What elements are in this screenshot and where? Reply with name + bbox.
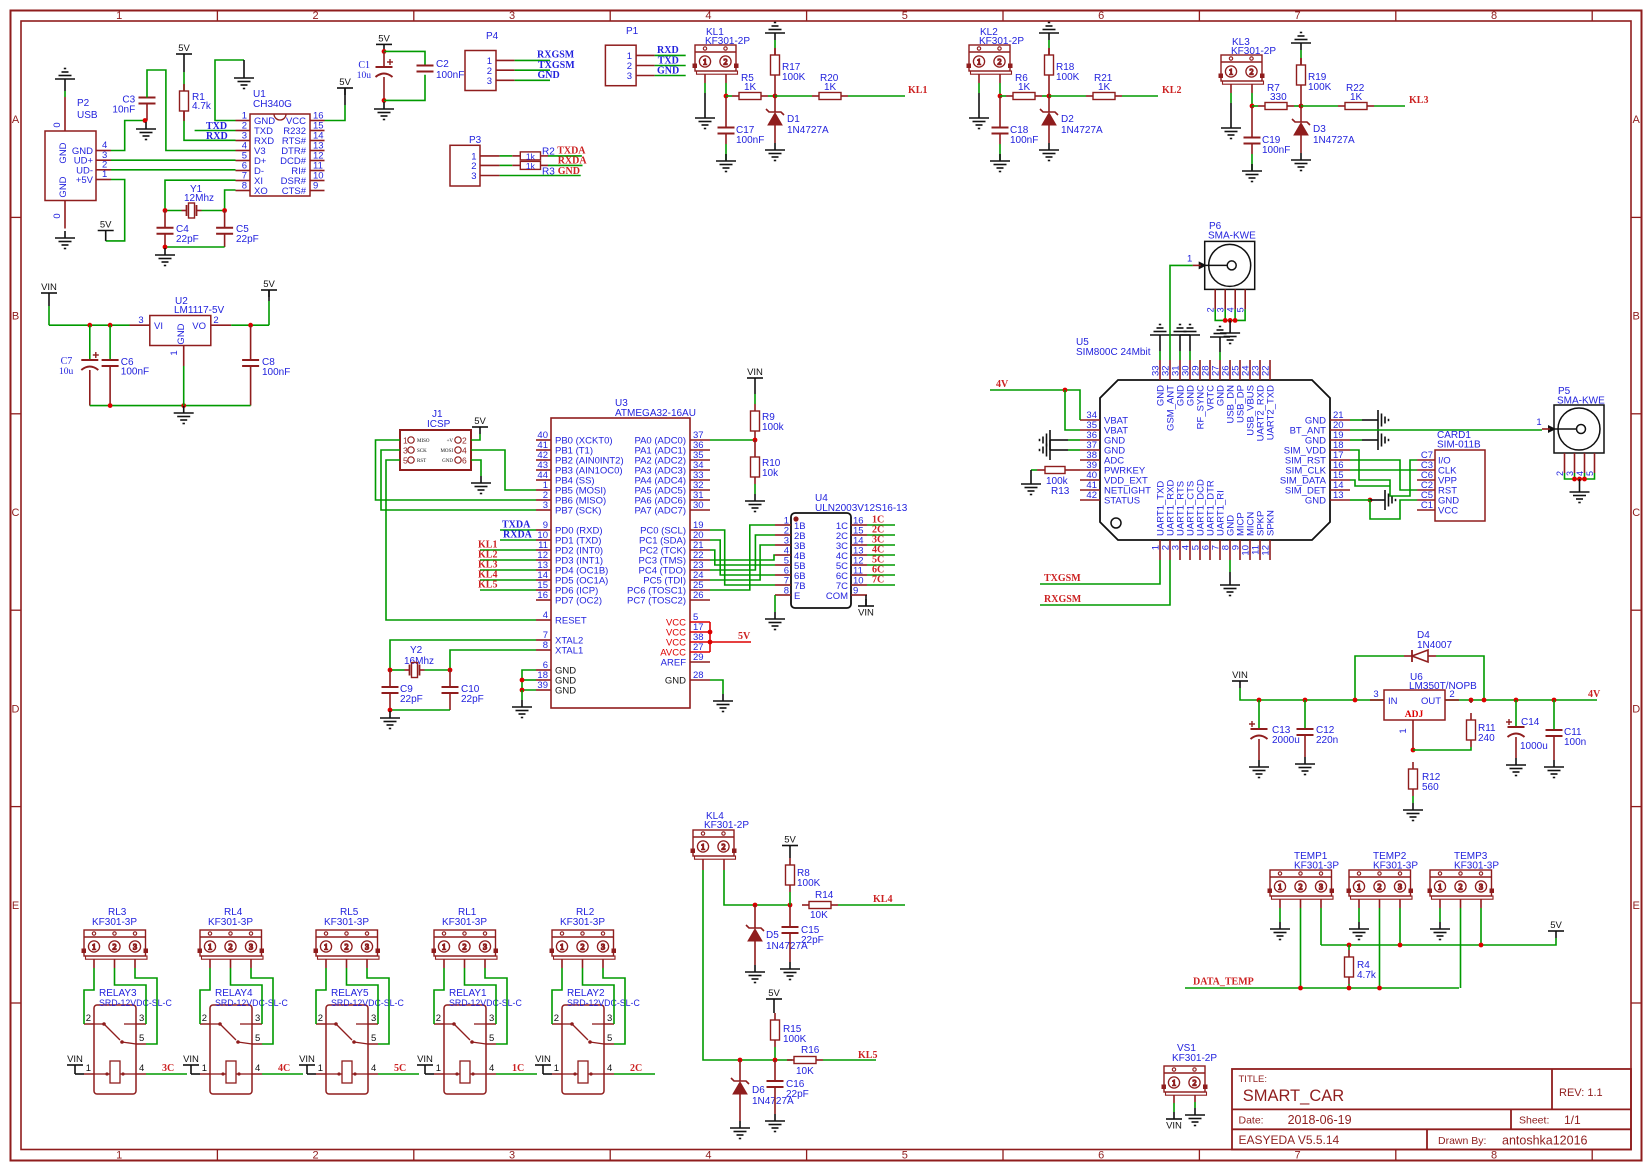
resistor R12 body: [1409, 762, 1418, 796]
wire: [135, 968, 157, 1044]
junction TEMP2 pin2: [1377, 986, 1382, 991]
wire RL2 pin3: [602, 959, 604, 968]
svg-text:100nF: 100nF: [262, 367, 290, 378]
wire: [1350, 460, 1417, 490]
svg-text:SRD-12VDC-SL-C: SRD-12VDC-SL-C: [331, 998, 404, 1008]
ground above R18: [1039, 23, 1059, 41]
wire: [1040, 560, 1160, 584]
svg-text:OUT: OUT: [1421, 696, 1441, 707]
svg-text:5V: 5V: [474, 416, 486, 427]
svg-text:C7: C7: [61, 356, 73, 367]
wire: [1048, 82, 1050, 96]
svg-text:PC7 (TOSC2): PC7 (TOSC2): [627, 596, 686, 607]
svg-text:2: 2: [1206, 307, 1216, 312]
wire U5 pin13 gnd: [1350, 499, 1362, 501]
svg-text:KF301-3P: KF301-3P: [1373, 861, 1418, 872]
wire: [710, 680, 723, 694]
svg-text:9: 9: [313, 181, 318, 192]
svg-text:3: 3: [1216, 307, 1226, 312]
connector RL3 KF301-3P: [82, 930, 148, 959]
junction R4 top: [1347, 943, 1352, 948]
svg-text:100nF: 100nF: [121, 367, 149, 378]
svg-text:2: 2: [1378, 882, 1382, 891]
wire: [1224, 309, 1226, 320]
connector KL2 KF301-2P: [967, 45, 1012, 74]
resistor R18 100K: [1045, 48, 1054, 82]
wire: [1048, 40, 1050, 48]
ground below C13: [1249, 760, 1269, 778]
wire: [774, 1087, 776, 1114]
svg-text:1: 1: [1278, 882, 1282, 891]
zener diode D6 1N4727A: [731, 1078, 749, 1094]
power flag 5V at temp bus: [1548, 931, 1564, 938]
svg-text:1000u: 1000u: [1520, 741, 1548, 752]
capacitor C13 body: [1249, 721, 1268, 739]
connector P5 SMA-KWE: [1548, 405, 1604, 453]
svg-text:2: 2: [554, 1013, 559, 1024]
svg-text:D3: D3: [1313, 124, 1326, 135]
capacitor C14 1000u: [1515, 700, 1517, 727]
wire TEMP2 pin3: [1399, 899, 1401, 908]
capacitor C3 body: [139, 98, 156, 104]
svg-text:330: 330: [1270, 92, 1287, 103]
svg-text:4: 4: [139, 1063, 144, 1074]
power flag 5V at U1 VCC: [337, 88, 353, 95]
ground TEMP1 pin1: [1270, 922, 1290, 940]
svg-text:1: 1: [560, 942, 564, 951]
svg-text:2: 2: [318, 1013, 323, 1024]
resistor R14 body: [802, 902, 838, 909]
wire: [471, 460, 481, 476]
junction KL2 pin2: [998, 94, 1003, 99]
wire 4C: [262, 1073, 303, 1075]
wire: [583, 968, 615, 1024]
ground U5 pin30: [1180, 325, 1200, 343]
svg-text:C: C: [1632, 507, 1640, 519]
svg-text:EASYEDA V5.5.14: EASYEDA V5.5.14: [1239, 1133, 1340, 1147]
svg-text:1: 1: [169, 350, 180, 355]
svg-text:5: 5: [607, 1033, 612, 1044]
svg-text:GND: GND: [58, 142, 69, 163]
junction Y1 left: [163, 208, 168, 213]
svg-text:1: 1: [208, 942, 212, 951]
svg-text:5V: 5V: [1550, 920, 1562, 931]
svg-text:VO: VO: [192, 321, 206, 332]
wire: [1215, 309, 1245, 320]
svg-text:SIM800C 24Mbit: SIM800C 24Mbit: [1076, 347, 1151, 358]
capacitor C17 100nF: [718, 128, 735, 134]
connector RL1 KF301-3P: [432, 930, 498, 959]
wire RXDA: [500, 539, 536, 541]
svg-text:1K: 1K: [1018, 82, 1031, 93]
svg-text:VIN: VIN: [747, 367, 763, 378]
junction R9/R10: [753, 438, 758, 443]
svg-text:5C: 5C: [394, 1063, 406, 1074]
svg-text:100K: 100K: [797, 878, 821, 889]
svg-text:28: 28: [693, 670, 704, 681]
power flag 5V at U2 output: [261, 290, 277, 297]
junction Y2 left: [388, 668, 393, 673]
svg-text:1: 1: [436, 1063, 441, 1074]
svg-text:4: 4: [1575, 471, 1585, 476]
wire: [725, 134, 727, 145]
ground below C18: [990, 154, 1010, 172]
junction C1 top: [382, 49, 387, 54]
IC U2 LM1117-5V: [130, 316, 232, 367]
svg-text:A: A: [1633, 114, 1641, 126]
resistor R1 4.7k: [180, 84, 189, 118]
svg-text:SRD-12VDC-SL-C: SRD-12VDC-SL-C: [449, 998, 522, 1008]
svg-text:4: 4: [489, 1063, 494, 1074]
connector P6 SMA-KWE: [1199, 241, 1255, 289]
capacitor C9: [382, 687, 399, 693]
wire: [774, 96, 776, 112]
relay RELAY4 SRD-12VDC-SL-C: [200, 1005, 262, 1094]
ground U3 pin28: [713, 694, 733, 712]
resistor R4 body: [1345, 950, 1354, 984]
svg-text:R13: R13: [1051, 486, 1070, 497]
svg-text:3: 3: [509, 1150, 515, 1162]
wire RL2 pin2: [582, 959, 584, 968]
svg-text:2: 2: [1555, 471, 1565, 476]
wire: [655, 65, 686, 67]
svg-text:220n: 220n: [1316, 735, 1338, 746]
wire: [465, 968, 497, 1024]
svg-text:SCK: SCK: [417, 449, 427, 454]
svg-text:VIN: VIN: [535, 1054, 551, 1065]
svg-text:SRD-12VDC-SL-C: SRD-12VDC-SL-C: [215, 998, 288, 1008]
svg-text:5V: 5V: [378, 33, 390, 44]
IC U6 LM350T/NOPB: [1370, 690, 1459, 750]
power flag VIN at RELAY4: [183, 1065, 199, 1072]
wire: [231, 324, 269, 326]
svg-text:C2: C2: [436, 59, 449, 70]
svg-text:1: 1: [92, 942, 96, 951]
svg-text:100K: 100K: [783, 1034, 807, 1045]
ground below C9: [380, 711, 400, 729]
svg-text:1K: 1K: [744, 82, 757, 93]
junction P6 shield: [1223, 318, 1228, 323]
svg-text:4: 4: [371, 1063, 376, 1074]
wire: [1252, 105, 1258, 107]
resistor R21 1K: [1086, 93, 1122, 100]
svg-text:1: 1: [86, 1063, 91, 1074]
svg-text:8: 8: [784, 586, 789, 597]
svg-text:4: 4: [1226, 307, 1236, 312]
wire: [231, 968, 263, 1024]
svg-text:KF301-3P: KF301-3P: [560, 917, 605, 928]
wire 1C: [496, 1073, 537, 1075]
svg-text:SMART_CAR: SMART_CAR: [1243, 1087, 1345, 1105]
svg-text:3: 3: [1398, 882, 1402, 891]
svg-text:1: 1: [116, 10, 122, 22]
ground for U1 GND pin: [234, 71, 254, 89]
svg-text:2: 2: [345, 942, 349, 951]
connector KL3 KF301-2P: [1219, 55, 1264, 84]
svg-text:5: 5: [1236, 307, 1246, 312]
junction 4V rail: [1482, 698, 1487, 703]
svg-text:3: 3: [489, 1013, 494, 1024]
resistor R13 100k: [1037, 467, 1080, 474]
junction R15/C16: [773, 1058, 778, 1063]
junction P6 shield: [1228, 318, 1233, 323]
svg-text:6: 6: [1098, 10, 1104, 22]
capacitor C1: [376, 59, 394, 77]
wire: [552, 968, 562, 1024]
svg-text:3: 3: [1319, 882, 1323, 891]
svg-text:2018-06-19: 2018-06-19: [1288, 1113, 1352, 1127]
svg-text:42: 42: [1086, 490, 1097, 501]
svg-text:2: 2: [313, 10, 319, 22]
svg-text:E: E: [1633, 900, 1640, 912]
ground P5 shield: [1570, 485, 1590, 503]
svg-text:1: 1: [977, 57, 981, 66]
svg-text:100nF: 100nF: [1262, 145, 1290, 156]
wire 4C: [867, 554, 895, 556]
wire: [384, 51, 425, 65]
ground U5 pin13: [1378, 490, 1396, 510]
svg-text:4: 4: [705, 1150, 711, 1162]
junction Y2 right: [448, 668, 453, 673]
junction KL1 pin2: [724, 94, 729, 99]
svg-text:2: 2: [1299, 882, 1303, 891]
wire RL3 pin2: [114, 959, 116, 968]
wire: [1229, 560, 1231, 572]
svg-text:5V: 5V: [100, 220, 112, 231]
wire 5C: [867, 564, 895, 566]
svg-text:3: 3: [1565, 471, 1575, 476]
svg-text:4: 4: [255, 1063, 260, 1074]
wire: [165, 180, 236, 210]
svg-text:GND: GND: [665, 676, 686, 687]
svg-text:D1: D1: [787, 114, 800, 125]
svg-text:1: 1: [1536, 417, 1541, 428]
wire: [1579, 479, 1581, 485]
svg-text:antoshka12016: antoshka12016: [1502, 1134, 1588, 1148]
svg-text:KF301-3P: KF301-3P: [1294, 861, 1339, 872]
wire: [1300, 135, 1302, 153]
ground at R13: [1021, 477, 1041, 495]
ground below D5: [745, 965, 765, 983]
svg-text:E: E: [794, 591, 800, 602]
svg-text:1: 1: [1172, 1078, 1176, 1087]
svg-text:5: 5: [902, 1150, 908, 1162]
svg-text:RST: RST: [417, 459, 426, 464]
svg-text:7C: 7C: [872, 575, 884, 586]
wire TEMP1 pin1: [1279, 899, 1281, 908]
junction 4V rail: [1469, 698, 1474, 703]
wire: [190, 1072, 192, 1074]
svg-text:3: 3: [139, 1013, 144, 1024]
wire RL5 pin1: [325, 959, 327, 968]
svg-text:1: 1: [701, 842, 705, 851]
svg-text:2: 2: [86, 1013, 91, 1024]
svg-text:D: D: [12, 703, 20, 715]
crystal Y1 12Mhz: [182, 203, 202, 218]
resistor R15 100K: [771, 1013, 780, 1047]
wire: [115, 968, 147, 1024]
svg-text:1: 1: [703, 57, 707, 66]
wire net KL2: [1122, 95, 1158, 97]
svg-text:2: 2: [581, 942, 585, 951]
junction KL3 mid: [1299, 104, 1304, 109]
ground above R19: [1291, 33, 1311, 51]
wire 6C: [867, 574, 895, 576]
junction 4V rail: [1552, 698, 1557, 703]
wire: [737, 904, 792, 906]
svg-text:C14: C14: [1521, 717, 1540, 728]
wire: [1294, 105, 1301, 107]
svg-text:GND: GND: [58, 176, 69, 197]
power flag VIN at VS1: [1166, 1112, 1182, 1119]
svg-text:22: 22: [1261, 365, 1272, 376]
wire: [1219, 352, 1221, 360]
power flag 5V above C1: [376, 44, 392, 51]
svg-text:3: 3: [607, 1013, 612, 1024]
diode D4 1N4007: [1404, 650, 1436, 662]
junction C7 top: [87, 323, 92, 328]
svg-text:3: 3: [403, 446, 408, 456]
svg-text:XTAL1: XTAL1: [555, 646, 583, 657]
resistor R11 body: [1467, 713, 1476, 747]
svg-text:REV: 1.1: REV: 1.1: [1559, 1087, 1603, 1099]
ground KL2 pin1: [969, 111, 989, 129]
svg-text:3: 3: [365, 942, 369, 951]
wire: [710, 545, 775, 580]
wire: [381, 450, 536, 510]
ground KL3 pin1: [1221, 121, 1241, 139]
wire: [1412, 796, 1414, 803]
svg-text:1: 1: [324, 942, 328, 951]
svg-text:ADJ: ADJ: [1405, 710, 1424, 720]
svg-text:KF301-2P: KF301-2P: [1231, 46, 1276, 57]
power flag VIN at RELAY3: [67, 1065, 83, 1072]
svg-text:26: 26: [693, 590, 704, 601]
junction R8/C15: [788, 903, 793, 908]
svg-text:KL5: KL5: [858, 1050, 877, 1061]
wire: [389, 670, 391, 687]
svg-text:1: 1: [116, 1150, 122, 1162]
wire: [1300, 106, 1302, 122]
wire: [1370, 500, 1417, 519]
wire: [1350, 469, 1417, 471]
wire 5C: [378, 1073, 419, 1075]
wire KL4: [480, 579, 536, 581]
wire 7C: [867, 584, 895, 586]
svg-text:PD7 (OC2): PD7 (OC2): [555, 596, 602, 607]
wire 3C: [867, 544, 895, 546]
wire: [754, 385, 756, 394]
junction P5 shield: [1577, 477, 1582, 482]
svg-text:2: 2: [724, 57, 728, 66]
svg-text:3: 3: [601, 942, 605, 951]
svg-text:PB7 (SCK): PB7 (SCK): [555, 506, 601, 517]
svg-text:KL5: KL5: [478, 580, 497, 591]
wire: [195, 130, 236, 132]
svg-text:4.7k: 4.7k: [192, 101, 212, 112]
wire C3 bottom: [146, 104, 148, 121]
wire: [774, 125, 776, 143]
connector J1 ICSP: [400, 430, 471, 470]
junction U2 GND: [181, 403, 186, 408]
wire: [542, 1072, 544, 1074]
junction C9 bottom: [388, 708, 393, 713]
junction D5: [753, 903, 758, 908]
svg-text:VIN: VIN: [41, 282, 57, 293]
svg-text:P2: P2: [77, 98, 90, 109]
wire: [1179, 351, 1181, 360]
wire: [1355, 656, 1404, 700]
ground at J1: [471, 476, 491, 494]
wire: [1350, 439, 1362, 441]
svg-text:1N4727A: 1N4727A: [1313, 135, 1355, 146]
wire KL4 pin1 to KL5 row: [702, 859, 704, 870]
ground below P2: [55, 231, 75, 249]
svg-text:MISO: MISO: [417, 439, 430, 444]
svg-text:4: 4: [543, 610, 548, 621]
svg-text:100K: 100K: [1056, 72, 1080, 83]
svg-text:1: 1: [554, 1063, 559, 1074]
svg-text:R14: R14: [815, 890, 834, 901]
junction C1 bottom: [382, 98, 387, 103]
resistor R7 330: [1258, 103, 1294, 110]
svg-text:2C: 2C: [630, 1063, 642, 1074]
ground below C15: [780, 962, 800, 980]
wire: [164, 234, 166, 247]
power flag 5V above R1: [176, 54, 192, 61]
power flag VIN at U2: [41, 293, 57, 300]
svg-text:SRD-12VDC-SL-C: SRD-12VDC-SL-C: [99, 998, 172, 1008]
wire: [376, 440, 537, 500]
junction TEMP2 pin3: [1398, 943, 1403, 948]
wire: [1185, 987, 1459, 989]
svg-text:VIN: VIN: [417, 1054, 433, 1065]
wire: [89, 370, 91, 406]
ground P6 shield: [1220, 326, 1240, 344]
wire: [774, 1060, 776, 1081]
wire 3C: [146, 1073, 187, 1075]
wire KL4 net: [838, 904, 905, 906]
junction KL3 pin2: [1250, 104, 1255, 109]
wire: [500, 175, 581, 177]
resistor R17 100K: [771, 48, 780, 82]
wire: [147, 70, 236, 151]
svg-text:AREF: AREF: [661, 658, 687, 669]
capacitor C18 100nF: [992, 128, 1009, 134]
svg-text:8: 8: [1491, 10, 1497, 22]
junction Y1 right: [222, 208, 227, 213]
wire: [710, 540, 775, 575]
capacitor C13 2000u: [1258, 700, 1260, 729]
svg-text:GND: GND: [442, 459, 453, 464]
junction TEMP3 pin3: [1479, 943, 1484, 948]
svg-text:5: 5: [139, 1033, 144, 1044]
junction KL1 mid: [773, 94, 778, 99]
svg-text:2: 2: [213, 315, 218, 326]
wire: [789, 905, 791, 927]
wire: [774, 40, 776, 48]
IC U3 ATMEGA32-16AU: [536, 418, 710, 708]
connector KL1 KF301-2P: [693, 45, 738, 74]
svg-text:4.7k: 4.7k: [1357, 970, 1377, 981]
wire: [111, 159, 236, 161]
wire: [1515, 737, 1517, 758]
ground below C4: [155, 248, 175, 266]
wire: [1300, 50, 1302, 58]
svg-text:D: D: [1632, 703, 1640, 715]
ground below D1: [765, 143, 785, 161]
connector P1: [605, 45, 654, 85]
